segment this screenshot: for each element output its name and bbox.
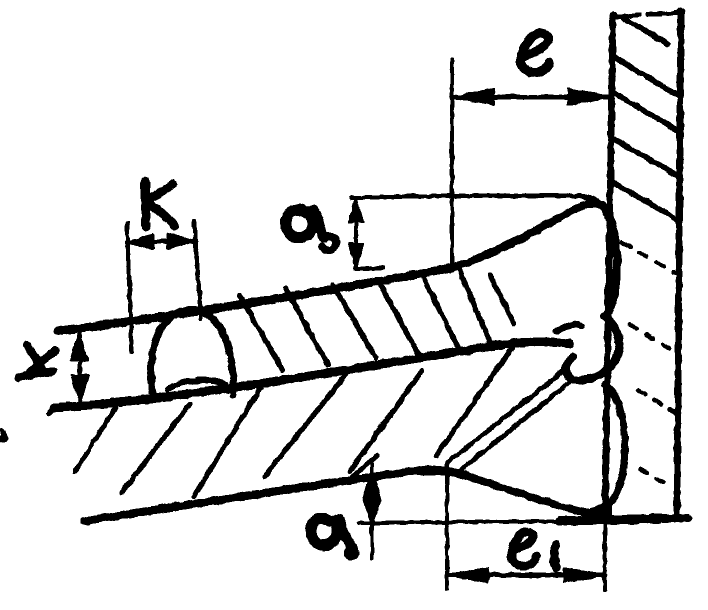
dimension K right extension bbox=[194, 221, 201, 318]
dimension k up arrow bbox=[71, 333, 87, 360]
dimension k down arrow bbox=[72, 376, 88, 403]
dimension e extension line bbox=[450, 59, 454, 270]
label g1 (bottom) bbox=[311, 518, 358, 560]
plate bevel edge line 2 bbox=[462, 380, 573, 469]
dimension e1 right extension bbox=[603, 522, 607, 590]
dimension g top bottom tick bbox=[356, 268, 383, 269]
dimension g1 vertical line bbox=[370, 462, 374, 558]
dimension e line bbox=[452, 95, 610, 99]
rod hatch 5 bbox=[421, 273, 459, 349]
wall hatch 5 bbox=[614, 183, 680, 221]
plate bevel edge line 1 bbox=[448, 369, 566, 462]
rod hatch 7 bbox=[490, 275, 514, 323]
wall hatch dotted 9 bbox=[640, 469, 670, 486]
wall hatch 1 bbox=[622, 17, 668, 44]
plate hatch B bbox=[194, 384, 263, 496]
wall left edge bbox=[605, 15, 613, 522]
rod hatch 6 bbox=[460, 271, 491, 345]
dimension e1 right arrow bbox=[564, 568, 605, 582]
wall hatch 2 bbox=[614, 57, 679, 96]
dimension g top vertical line bbox=[354, 198, 358, 268]
wall right edge bbox=[677, 11, 681, 519]
dimension e1 left arrow bbox=[447, 568, 488, 582]
rod hatch 1 bbox=[240, 296, 283, 371]
plate hatch E bbox=[436, 348, 512, 456]
wall hatch dotted 8 bbox=[638, 390, 676, 413]
weld root bulb bbox=[566, 316, 619, 380]
dimension K right arrow bbox=[168, 234, 194, 248]
rod top edge bbox=[58, 268, 450, 331]
dimension k line bbox=[78, 334, 82, 402]
dimension g1 up arrow bbox=[364, 472, 380, 498]
wall hatch dotted 6 bbox=[622, 242, 676, 274]
wall hatch 4 bbox=[614, 139, 680, 177]
weld crest corner blob bbox=[584, 197, 607, 212]
label k bbox=[18, 345, 56, 378]
plate edge weld junction band bbox=[408, 470, 472, 478]
plate bottom edge start blob bbox=[84, 517, 92, 525]
plate bottom edge bbox=[84, 471, 457, 521]
dimension e1 line bbox=[447, 573, 605, 577]
rod hatch 4 bbox=[378, 280, 418, 354]
wall bottom edge bbox=[560, 518, 688, 521]
rod hatch 2 bbox=[286, 289, 328, 365]
plate hatch D tick bbox=[352, 456, 377, 477]
dimension g1 down arrow bbox=[364, 500, 380, 521]
dimension e left arrow bbox=[452, 89, 494, 105]
rod bottom edge bbox=[54, 342, 570, 408]
wall top edge bbox=[615, 13, 680, 17]
top weld outline bbox=[450, 203, 617, 316]
label K bbox=[145, 182, 175, 227]
wall hatch dotted 7 bbox=[630, 325, 672, 350]
dimension K left arrow bbox=[127, 235, 153, 249]
bottom weld face curve bbox=[457, 473, 606, 514]
dimension e right arrow bbox=[568, 89, 610, 105]
dimension g top down arrow bbox=[349, 244, 363, 268]
rod end dome chord bbox=[168, 380, 226, 389]
weld root upper stroke bbox=[557, 325, 581, 331]
bottom weld bulge on wall bbox=[605, 384, 625, 507]
plate hatch A bbox=[122, 404, 190, 492]
rod bottom edge left hook bbox=[49, 408, 59, 413]
label e bbox=[521, 34, 549, 73]
wall bottom edge extension (g1 level line) bbox=[358, 521, 604, 523]
rod hatch 3 bbox=[333, 285, 376, 358]
plate hatch C bbox=[264, 367, 352, 477]
weld crest line (top) bbox=[351, 196, 607, 211]
wall hatch 3 bbox=[614, 93, 680, 132]
label e1 bbox=[511, 532, 556, 568]
label g (top) bbox=[286, 210, 336, 250]
plate hatch D bbox=[350, 371, 422, 471]
dimension K left extension bbox=[127, 223, 132, 352]
dimension g top up arrow bbox=[349, 198, 363, 222]
weld to wall bottom corner patch bbox=[588, 500, 612, 522]
rod end dome bbox=[151, 310, 233, 397]
stray scan mark left margin bbox=[0, 430, 6, 441]
dimension e1 left extension bbox=[445, 462, 449, 589]
dimension K line bbox=[127, 241, 194, 242]
plate hatch 0 bbox=[75, 407, 116, 471]
